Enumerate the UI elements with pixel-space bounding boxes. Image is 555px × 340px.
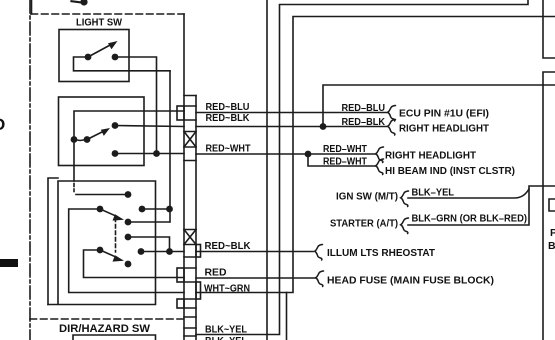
squiggle connector STARTER — [401, 218, 409, 234]
squiggle connector IGN SW — [401, 191, 409, 207]
svg-text:IGN SW (M/T): IGN SW (M/T) — [336, 191, 398, 203]
right edge connector vertical (top) — [543, 0, 555, 58]
junction dot K — [166, 248, 173, 255]
switch S3 blade arrow F-G — [100, 209, 117, 217]
switch S3 contact dot J — [125, 234, 132, 241]
connector X symbol 1 — [184, 132, 196, 148]
connector terminal bump right 2 — [196, 282, 201, 299]
wire S3 row1 (dead end) — [76, 194, 128, 196]
switch S2 contact dot A — [71, 136, 78, 143]
wire RED-WHT from bus — [196, 153, 376, 155]
wire M left-down-right to bus (RED) — [84, 250, 185, 278]
squiggle connector HI BEAM — [376, 159, 384, 175]
switch S2 contact dot B — [84, 136, 91, 143]
long vertical wire off top and bottom edges — [266, 0, 268, 340]
switch S3 contact dot G — [125, 219, 132, 226]
squiggle connector RIGHT HEADLIGHT 2 — [376, 147, 384, 163]
upper switch contact dot — [80, 0, 87, 6]
svg-text:DIR/HAZARD SW: DIR/HAZARD SW — [59, 323, 151, 335]
connector X symbol 2 — [184, 230, 196, 245]
wire G to vertical — [128, 221, 170, 223]
svg-text:BLK–YEL: BLK–YEL — [412, 187, 455, 199]
wire H to junction I — [142, 208, 170, 210]
wire from F to bus (WHT-GRN) — [69, 209, 184, 293]
switch S1 box — [59, 30, 129, 82]
connector strip right edge — [195, 96, 197, 340]
wire RED-BLK branch up and off right edge — [323, 85, 555, 127]
switch S3 contact dot L — [138, 248, 145, 255]
junction dot RED-BLK branch — [320, 123, 327, 130]
switch S3 contact dot N — [125, 261, 132, 268]
switch S3 dead-end contact dot — [125, 191, 132, 198]
connector terminal bump right 1 — [196, 245, 201, 258]
wire D right to bus (RED-WHT) — [115, 153, 184, 155]
wire WHT-GRN up and off right edge — [196, 17, 555, 293]
svg-text:RED~WHT: RED~WHT — [206, 143, 251, 155]
svg-text:RIGHT HEADLIGHT: RIGHT HEADLIGHT — [385, 150, 477, 162]
svg-text:RIGHT HEADLIGHT: RIGHT HEADLIGHT — [399, 123, 490, 135]
connector terminal bump left 3 — [177, 299, 184, 308]
switch S1 contact dot 2 — [112, 54, 119, 61]
switch S3 contact dot M — [97, 247, 104, 254]
wire BLK-YEL to IGN SW — [408, 186, 555, 198]
junction dot I — [166, 206, 173, 213]
DIR/HAZARD switch box fragment (cut at bottom) — [73, 335, 156, 340]
svg-text:BLK–GRN (OR BLK–RED): BLK–GRN (OR BLK–RED) — [412, 213, 528, 225]
svg-text:LIGHT SW: LIGHT SW — [76, 17, 122, 29]
svg-text:RED~BLK: RED~BLK — [205, 240, 251, 252]
upper switch box fragment (cut off at top) — [31, 0, 33, 14]
svg-text:P: P — [550, 227, 555, 239]
wire BLK-GRN to STARTER — [408, 189, 529, 225]
svg-text:RED–WHT: RED–WHT — [323, 143, 367, 155]
wire A up and right to bus (RED-BLU) — [74, 111, 184, 140]
enclosure section border (dashed, top of LIGHT SW) — [31, 13, 184, 15]
mechanical link dashed — [115, 218, 117, 252]
svg-text:BLK~YEL: BLK~YEL — [205, 335, 248, 340]
svg-text:RED: RED — [205, 267, 227, 279]
svg-text:BLK~YEL: BLK~YEL — [205, 324, 248, 336]
svg-text:RED–WHT: RED–WHT — [323, 156, 367, 168]
junction dot RED-WHT split — [305, 151, 312, 158]
connector terminal bump left 1 — [177, 106, 184, 120]
svg-text:D: D — [0, 115, 5, 134]
svg-text:STARTER (A/T): STARTER (A/T) — [330, 218, 398, 230]
switch S3 box — [48, 181, 156, 305]
squiggle connector RIGHT HEADLIGHT — [388, 120, 396, 136]
switch S2 contact dot C — [112, 122, 119, 129]
svg-text:RED–BLU: RED–BLU — [342, 102, 386, 114]
switch S1 blade arrow — [88, 44, 112, 57]
wire BLK-YEL (bottom) up and off top edge — [196, 0, 528, 335]
enclosure section border (dashed, top of DIR/HAZARD SW) — [30, 318, 184, 320]
switch assembly enclosure dash-dot left border — [29, 0, 31, 340]
short vertical wire to bottom edge — [286, 293, 288, 340]
switch S2 box — [59, 97, 145, 166]
wire RED-BLU to ECU — [196, 112, 387, 114]
upper switch blade (cut) — [72, 1, 81, 2]
right edge small box fragment — [549, 199, 555, 211]
switch S3 contact dot H — [139, 206, 146, 213]
wire L-K to bus (RED-BLK 2) — [141, 251, 184, 253]
black index bar at left edge — [0, 259, 18, 267]
svg-text:HI BEAM IND (INST CLSTR): HI BEAM IND (INST CLSTR) — [385, 165, 515, 177]
switch S3 contact dot F — [97, 206, 104, 213]
wire outer left vertical — [48, 178, 58, 305]
enclosure right border / connector strip left edge — [183, 14, 185, 340]
switch S3 blade arrow M-N — [100, 250, 117, 258]
squiggle connector ECU — [388, 106, 396, 122]
svg-text:BL: BL — [548, 240, 555, 252]
wire A to B — [74, 140, 87, 141]
wire RED-BLK2 to ILLUM LTS RHEOSTAT — [196, 251, 313, 253]
svg-text:RED~BLK: RED~BLK — [206, 112, 250, 124]
wire RED-WHT branch to HI BEAM IND — [308, 154, 376, 166]
wire S1 dot1 vertical down to node I — [169, 71, 171, 222]
svg-text:ILLUM LTS RHEOSTAT: ILLUM LTS RHEOSTAT — [327, 247, 436, 259]
svg-text:HEAD FUSE (MAIN FUSE BLOCK): HEAD FUSE (MAIN FUSE BLOCK) — [327, 275, 494, 287]
svg-text:RED–BLK: RED–BLK — [342, 116, 386, 128]
switch S2 contact dot D — [112, 150, 119, 157]
wire J right and down to K — [128, 237, 170, 252]
wire from S1 dot2 to RED-WHT junction — [115, 57, 157, 154]
switch S2 blade arrow — [87, 131, 104, 140]
wire A down to switch S3 — [73, 140, 75, 182]
squiggle connector ILLUM — [315, 245, 323, 261]
wire RED to HEAD FUSE — [196, 277, 316, 279]
right edge connector vertical (long) — [543, 72, 555, 340]
svg-text:WHT~GRN: WHT~GRN — [204, 283, 250, 295]
junction dot E on RED-WHT wire — [153, 150, 160, 157]
squiggle connector HEAD FUSE — [316, 271, 324, 287]
connector terminal bump left 2 — [177, 268, 184, 282]
wire C right to bus (RED-BLK) — [115, 126, 184, 127]
wire RED-BLK to right headlight — [196, 126, 387, 128]
svg-text:ECU PIN #1U (EFI): ECU PIN #1U (EFI) — [399, 108, 489, 120]
wire from S1 dot1 left-down-right — [74, 57, 171, 71]
switch S1 contact dot 1 — [85, 54, 92, 61]
connector strip rungs — [184, 96, 196, 337]
